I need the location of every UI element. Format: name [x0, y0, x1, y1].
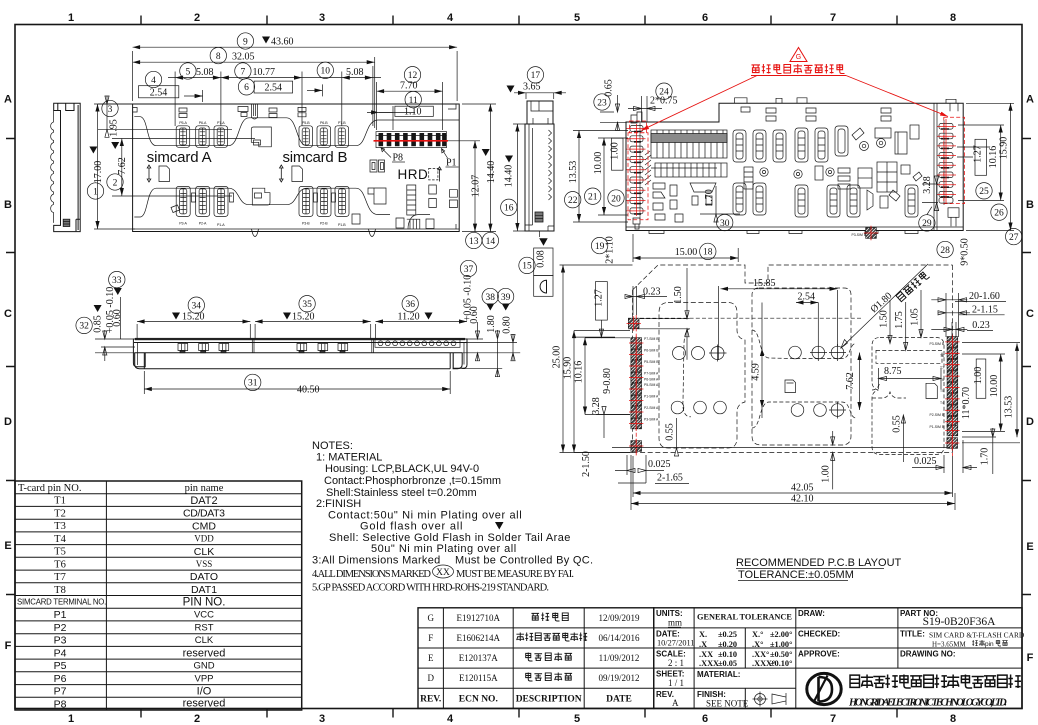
svg-text:P1: P1	[54, 609, 67, 621]
svg-text:RST: RST	[195, 622, 214, 633]
dim 7.62	[859, 353, 861, 411]
svg-text:TOLERANCE:±0.05MM: TOLERANCE:±0.05MM	[738, 569, 854, 581]
dim 1: 17.00	[94, 104, 135, 229]
red marks on left pins	[627, 121, 649, 220]
svg-text:15.90: 15.90	[999, 137, 1010, 160]
svg-text:14.40: 14.40	[486, 161, 497, 184]
svg-text:10.16: 10.16	[988, 146, 999, 169]
svg-text:15.85: 15.85	[753, 278, 776, 289]
dim 35: 15.20	[299, 296, 315, 312]
svg-text:2*1.10: 2*1.10	[605, 236, 616, 264]
svg-text:0.08: 0.08	[536, 250, 547, 268]
svg-text:T6: T6	[54, 559, 66, 570]
revision table grid	[418, 608, 654, 709]
svg-text:10.00: 10.00	[989, 375, 1000, 398]
inner right edge lines	[934, 103, 937, 230]
svg-text:1.27: 1.27	[973, 145, 984, 163]
svg-text:35: 35	[302, 300, 312, 310]
svg-text:3: 3	[319, 12, 325, 24]
svg-text:SEE NOTE: SEE NOTE	[706, 699, 749, 709]
svg-text:P7-SIM B: P7-SIM B	[644, 337, 659, 341]
svg-text:±0.10°: ±0.10°	[770, 659, 792, 668]
svg-text:11: 11	[409, 96, 418, 106]
right pin column	[939, 120, 959, 226]
svg-text:7.70: 7.70	[400, 80, 418, 91]
svg-text:±0.50°: ±0.50°	[770, 650, 792, 659]
svg-text:5: 5	[574, 713, 580, 725]
svg-text:3: 3	[108, 105, 113, 115]
bottom tabs	[649, 231, 918, 234]
svg-text:2:FINISH: 2:FINISH	[316, 498, 361, 510]
svg-text:10/27/2011: 10/27/2011	[657, 639, 695, 648]
middle contact pads upper row	[733, 125, 919, 162]
svg-text:28: 28	[940, 246, 950, 256]
dim 37	[460, 260, 476, 276]
svg-text:36: 36	[405, 300, 415, 310]
svg-text:T3: T3	[54, 521, 66, 532]
svg-text:7.62: 7.62	[117, 157, 128, 175]
svg-text:32: 32	[79, 322, 89, 332]
dim 27: 15.90	[966, 103, 1014, 230]
outer body outline	[133, 104, 460, 232]
svg-text:6: 6	[702, 713, 708, 725]
left pin column	[630, 112, 651, 229]
dim 14: 14.40	[462, 103, 496, 105]
svg-text:B: B	[1026, 199, 1034, 211]
svg-text:P5-B: P5-B	[302, 121, 310, 125]
svg-text:P3: P3	[54, 635, 67, 647]
svg-text:PIN NO.: PIN NO.	[183, 597, 226, 609]
svg-text:0.80: 0.80	[502, 316, 513, 334]
svg-text:P6: P6	[54, 673, 67, 685]
svg-text:P2: P2	[54, 622, 67, 634]
svg-text:0.60: 0.60	[469, 306, 480, 324]
top cap	[527, 101, 553, 124]
dim 8: 32.05	[374, 57, 376, 128]
svg-text:0.025: 0.025	[648, 459, 671, 470]
svg-text:P1-B: P1-B	[338, 223, 346, 227]
svg-text:P2-SIM B: P2-SIM B	[929, 413, 944, 417]
svg-text:2-1.15: 2-1.15	[972, 305, 998, 316]
small rects under top edge	[741, 107, 891, 121]
svg-text:CHECKED:: CHECKED:	[798, 630, 840, 639]
svg-text:20-1.60: 20-1.60	[969, 291, 1000, 302]
body outline	[54, 103, 80, 231]
svg-text:simcard B: simcard B	[283, 149, 348, 166]
svg-text:MATERIAL:: MATERIAL:	[697, 670, 740, 679]
svg-text:25.00: 25.00	[552, 346, 563, 369]
svg-text:P5-SIM A: P5-SIM A	[644, 383, 659, 387]
dim 24: 2*0.75	[656, 83, 672, 99]
svg-text:6: 6	[702, 12, 708, 24]
svg-text:2.54: 2.54	[265, 82, 283, 93]
svg-text:E: E	[4, 540, 11, 552]
svg-text:DAT2: DAT2	[190, 495, 217, 507]
svg-text:GND: GND	[193, 661, 214, 672]
svg-text:CMD: CMD	[192, 520, 216, 532]
pin table grid	[15, 481, 302, 710]
svg-text:1 / 1: 1 / 1	[668, 678, 684, 688]
svg-text:40.50: 40.50	[297, 384, 320, 395]
svg-text:pin: pin	[985, 641, 994, 648]
svg-text:19: 19	[595, 242, 605, 252]
svg-text:13: 13	[469, 237, 479, 247]
svg-text:T4: T4	[54, 534, 66, 545]
svg-text:8: 8	[950, 12, 956, 24]
svg-text:21: 21	[588, 193, 598, 203]
svg-text:VDD: VDD	[194, 534, 214, 544]
dim 18: 15.00	[633, 234, 738, 262]
pcb bottom reference line	[612, 447, 950, 449]
svg-text:10.16: 10.16	[574, 361, 585, 384]
svg-text:42.05: 42.05	[791, 483, 814, 494]
svg-text:P6-SIM B: P6-SIM B	[644, 349, 659, 353]
title block grid	[654, 608, 1022, 709]
title block	[654, 608, 1025, 709]
svg-text:Contact:Phosphorbronze ,t=0.15: Contact:Phosphorbronze ,t=0.15mm	[324, 475, 501, 487]
top tabs	[735, 98, 958, 112]
center misc	[744, 162, 922, 192]
svg-text:D: D	[4, 416, 12, 428]
svg-text:T7: T7	[54, 572, 66, 583]
svg-text:S19-0B20F36A: S19-0B20F36A	[923, 616, 997, 628]
svg-text:E: E	[1026, 541, 1033, 553]
svg-text:0.55: 0.55	[892, 415, 903, 433]
middle pads	[251, 127, 271, 147]
view 4 dimensions	[565, 79, 1022, 266]
dim 3: 1.95	[102, 100, 118, 116]
svg-text:37: 37	[464, 265, 474, 275]
svg-text:32.05: 32.05	[232, 52, 255, 63]
svg-text:43.60: 43.60	[271, 37, 294, 48]
svg-text:CLK: CLK	[195, 635, 214, 646]
svg-text:4.59: 4.59	[751, 363, 762, 381]
svg-text:C: C	[1026, 308, 1034, 320]
svg-text:G: G	[427, 613, 434, 623]
svg-text:CLK: CLK	[194, 546, 214, 558]
svg-text:4.ALL DIMENSIONS MARKED: 4.ALL DIMENSIONS MARKED	[312, 569, 431, 580]
svg-text:0.23: 0.23	[643, 287, 661, 298]
svg-text:VCC: VCC	[194, 610, 214, 621]
svg-text:P6-A: P6-A	[199, 121, 207, 125]
HRD zone small parts	[370, 160, 385, 172]
svg-text:F: F	[428, 633, 433, 643]
dim 25.00	[560, 265, 633, 453]
svg-text:P2-B: P2-B	[320, 222, 328, 226]
svg-text:pin name: pin name	[185, 483, 224, 494]
svg-text:1.00: 1.00	[610, 142, 621, 160]
svg-text:ECN NO.: ECN NO.	[459, 695, 498, 705]
svg-text:A: A	[4, 94, 12, 106]
dim 4.59	[761, 303, 763, 419]
svg-text:1: 1	[68, 12, 74, 24]
T-flash contact row	[375, 339, 460, 347]
svg-text:F: F	[5, 640, 12, 652]
svg-text:D: D	[427, 673, 434, 683]
rows T1-T8	[54, 496, 66, 596]
svg-text:2: 2	[113, 178, 118, 188]
svg-text:39: 39	[501, 293, 511, 303]
svg-text:50u" Ni min Plating over all: 50u" Ni min Plating over all	[371, 543, 517, 555]
svg-text:DAT1: DAT1	[191, 584, 217, 596]
svg-text:P2-SIM A: P2-SIM A	[644, 406, 659, 410]
red annotation	[641, 48, 948, 131]
svg-text:T5: T5	[54, 547, 66, 558]
dim 10.16 pcb	[585, 338, 630, 415]
svg-text:0.55: 0.55	[665, 423, 676, 441]
svg-text:DRAW:: DRAW:	[798, 609, 825, 618]
svg-text:1.00: 1.00	[973, 367, 984, 385]
dim 26: 10.16	[958, 125, 1004, 201]
right pad labels	[851, 233, 944, 429]
svg-text:11/09/2012: 11/09/2012	[599, 653, 640, 663]
small rects under top edge	[179, 107, 306, 118]
contact feet groups	[178, 344, 348, 353]
red marks on right pins	[937, 117, 965, 203]
svg-text:T5: T5	[940, 389, 944, 393]
svg-text:3: 3	[319, 713, 325, 725]
latch detail	[63, 219, 70, 226]
drill holes top row	[673, 344, 847, 362]
svg-text:2: 2	[194, 12, 200, 24]
svg-text:P6-SIM A: P6-SIM A	[644, 378, 659, 382]
svg-text:X.°: X.°	[752, 630, 763, 639]
dim 34: 15.20	[188, 297, 204, 313]
svg-text:7: 7	[830, 713, 836, 725]
svg-text:1.80: 1.80	[486, 315, 497, 333]
jagged right inner edge	[549, 130, 552, 200]
svg-text:HONGRIDA ELECTRONIC TECHNOLOGY: HONGRIDA ELECTRONIC TECHNOLOGY CO.,LTD.	[848, 698, 1007, 709]
svg-text:C: C	[4, 308, 12, 320]
svg-text:CD/DAT3: CD/DAT3	[183, 508, 225, 520]
svg-text:T-card pin NO.: T-card pin NO.	[18, 483, 81, 494]
svg-text:5.GP PASSED ACCORD WITH HRD-RO: 5.GP PASSED ACCORD WITH HRD-ROHS-219 STA…	[312, 583, 549, 594]
svg-text:13.53: 13.53	[1004, 396, 1015, 419]
svg-text:.X°: .X°	[752, 640, 763, 649]
svg-text:3.65: 3.65	[523, 82, 541, 93]
svg-text:±2.00°: ±2.00°	[770, 630, 792, 639]
svg-text:4: 4	[447, 12, 454, 24]
projection symbols	[753, 692, 787, 707]
svg-text:15.20: 15.20	[182, 312, 205, 323]
company logo	[807, 673, 841, 704]
svg-text:P3-SIM B: P3-SIM B	[929, 342, 944, 346]
svg-text:13.53: 13.53	[568, 161, 579, 184]
svg-text:10.77: 10.77	[253, 67, 276, 78]
svg-text:P7: P7	[54, 686, 67, 698]
svg-text:E1912710A: E1912710A	[457, 613, 501, 623]
svg-text:P4: P4	[54, 647, 67, 659]
svg-text:1: MATERIAL: 1: MATERIAL	[316, 452, 382, 464]
svg-text:4: 4	[447, 713, 454, 725]
svg-text:1: 1	[68, 713, 74, 725]
svg-text:17.00: 17.00	[93, 161, 104, 184]
dim 17: 3.65	[527, 67, 543, 83]
svg-text:DATO: DATO	[190, 571, 218, 583]
dim 25: boxed 1.27	[975, 139, 987, 175]
svg-text:B: B	[4, 199, 12, 211]
svg-text:VPP: VPP	[194, 673, 213, 684]
svg-text:T7: T7	[940, 366, 944, 370]
svg-text:GENERAL TOLERANCE: GENERAL TOLERANCE	[697, 613, 792, 622]
dim 10.00 right	[1000, 354, 1002, 431]
slot labels bottom	[179, 222, 346, 228]
svg-text:F: F	[1027, 652, 1034, 664]
svg-text:P5-SIM B: P5-SIM B	[644, 360, 659, 364]
svg-text:29: 29	[922, 219, 932, 229]
svg-text:P3-A: P3-A	[179, 222, 187, 226]
svg-text:P3-SIM A: P3-SIM A	[644, 418, 659, 422]
island 3 (right seat)	[872, 338, 944, 455]
svg-text:1.70: 1.70	[980, 448, 991, 466]
dims 5,7,10 row	[175, 66, 373, 126]
svg-text:P5: P5	[54, 660, 67, 672]
svg-text:14.40: 14.40	[504, 165, 515, 188]
P8 / P1 leader labels	[381, 148, 391, 158]
svg-text:15.00: 15.00	[675, 247, 698, 258]
svg-text:1.70: 1.70	[704, 189, 715, 207]
svg-text:2*0.75: 2*0.75	[650, 96, 678, 107]
bottom slots simcard A	[176, 186, 190, 216]
svg-text:.XX: .XX	[699, 650, 713, 659]
svg-text:SIM CARD &T-FLASH CARD: SIM CARD &T-FLASH CARD	[929, 631, 1025, 640]
outer dashed outline	[633, 265, 953, 453]
XX oval in note 4	[433, 565, 454, 578]
svg-text:.XXX: .XXX	[699, 659, 719, 668]
svg-text:5: 5	[574, 12, 580, 24]
dim 23: 0.65	[594, 94, 610, 110]
dim 13.53 right	[1016, 343, 1018, 437]
svg-text:2.54: 2.54	[150, 87, 168, 98]
svg-text:42.10: 42.10	[791, 494, 814, 505]
svg-text:XX: XX	[436, 568, 450, 578]
svg-text:TITLE:: TITLE:	[900, 630, 925, 639]
svg-text:reserved: reserved	[183, 647, 226, 659]
svg-text:5: 5	[186, 67, 191, 77]
dim 4: boxed 2.54	[145, 71, 161, 87]
svg-text:1.05: 1.05	[910, 308, 921, 326]
pin strip P8..P1	[376, 132, 447, 148]
dim 39: 0.80	[497, 288, 513, 304]
svg-text:E120137A: E120137A	[459, 653, 498, 663]
svg-text:P7-SIM A: P7-SIM A	[644, 372, 659, 376]
svg-text:DATE: DATE	[606, 695, 632, 705]
svg-text:15.20: 15.20	[292, 312, 315, 323]
svg-text:P3-SIM B: P3-SIM B	[851, 233, 866, 237]
CJK descriptions	[531, 613, 568, 622]
svg-text:A: A	[1026, 94, 1034, 106]
dim 32: 0.85	[76, 317, 92, 333]
svg-text:25: 25	[979, 187, 989, 197]
svg-text:.XX°: .XX°	[752, 650, 769, 659]
svg-text:simcard A: simcard A	[147, 149, 212, 166]
svg-text:HRD: HRD	[398, 167, 429, 182]
svg-text:±0.25: ±0.25	[718, 630, 737, 639]
dim 15: flatness 0.08	[539, 231, 541, 237]
svg-text:33: 33	[112, 276, 122, 286]
svg-text:9-0.80: 9-0.80	[602, 368, 613, 394]
svg-text:Housing: LCP,BLACK,UL 94V-0: Housing: LCP,BLACK,UL 94V-0	[325, 463, 479, 475]
svg-text:0.85: 0.85	[93, 315, 104, 333]
island 2 (simcard seat middle)	[752, 288, 851, 445]
svg-text:27: 27	[1009, 233, 1019, 243]
svg-text:12.07: 12.07	[471, 175, 482, 198]
pin assignment table (bottom left)	[15, 481, 302, 710]
dim 9: 43.60 overall width	[133, 51, 458, 101]
dim 22: 13.53	[573, 131, 628, 223]
dim 12: 7.70	[377, 82, 443, 130]
svg-text:4: 4	[151, 76, 156, 86]
svg-text:5.08: 5.08	[196, 67, 214, 78]
svg-text:I/O: I/O	[197, 686, 212, 698]
svg-text:SIMCARD TERMINAL NO.: SIMCARD TERMINAL NO.	[17, 598, 106, 607]
svg-text:DESCRIPTION: DESCRIPTION	[516, 695, 582, 705]
dim 36: 11.20	[402, 296, 418, 312]
drill holes bottom row	[671, 401, 846, 418]
dashed trace channel top-left	[639, 319, 690, 329]
svg-text:09/19/2012: 09/19/2012	[598, 673, 639, 683]
svg-text:10.00: 10.00	[593, 152, 604, 175]
svg-text:7: 7	[830, 12, 836, 24]
svg-text:5.08: 5.08	[346, 67, 364, 78]
svg-text:8: 8	[216, 52, 221, 62]
svg-text:±0.05: ±0.05	[718, 659, 737, 668]
svg-text:2-1.65: 2-1.65	[657, 473, 683, 484]
svg-text:±1.00°: ±1.00°	[770, 640, 792, 649]
comb top left	[651, 130, 727, 222]
svg-text:15: 15	[522, 262, 532, 272]
svg-text:06/14/2016: 06/14/2016	[598, 633, 640, 643]
svg-text:3.28: 3.28	[922, 176, 933, 194]
island 1 (simcard seat left)	[659, 303, 745, 449]
svg-text:1.50: 1.50	[673, 286, 684, 304]
dim 13: 12.07	[448, 141, 496, 232]
notes text block	[312, 440, 593, 594]
dim 31: 40.50	[245, 374, 261, 390]
svg-text:0.025: 0.025	[914, 456, 937, 467]
svg-text:Must be Controlled By QC.: Must be Controlled By QC.	[455, 555, 593, 567]
svg-text:0.65: 0.65	[604, 79, 615, 97]
svg-text:7.62: 7.62	[845, 372, 856, 390]
contact bumps left edge	[51, 111, 54, 223]
rows P1-P8	[54, 609, 67, 710]
svg-text:T8: T8	[54, 585, 66, 596]
svg-text:1.50: 1.50	[879, 310, 890, 328]
svg-text:E120115A: E120115A	[459, 673, 498, 683]
right pads column	[636, 226, 959, 456]
upper wavy contour	[134, 117, 459, 146]
svg-text:18: 18	[703, 248, 713, 258]
svg-text:E1606214A: E1606214A	[457, 633, 501, 643]
svg-text:38: 38	[485, 293, 495, 303]
svg-text:+0.05 -0.10: +0.05 -0.10	[105, 287, 116, 333]
svg-text:1.75: 1.75	[894, 311, 905, 329]
svg-text:9: 9	[243, 37, 248, 47]
dim 15.90 pcb	[574, 331, 630, 453]
note triangle gold flash	[495, 522, 504, 530]
svg-text:P1-A: P1-A	[217, 223, 225, 227]
dim 28: 9*0.50	[937, 241, 953, 257]
svg-text:P8: P8	[54, 698, 67, 710]
view 3 dimensions	[501, 67, 566, 297]
outline	[626, 103, 963, 230]
svg-text:±0.10: ±0.10	[718, 650, 737, 659]
svg-text:REV.: REV.	[420, 695, 441, 705]
red highlight line	[374, 140, 449, 142]
svg-text:T4: T4	[940, 401, 944, 405]
frame row letters	[4, 94, 1034, 665]
svg-text:G: G	[796, 54, 801, 61]
